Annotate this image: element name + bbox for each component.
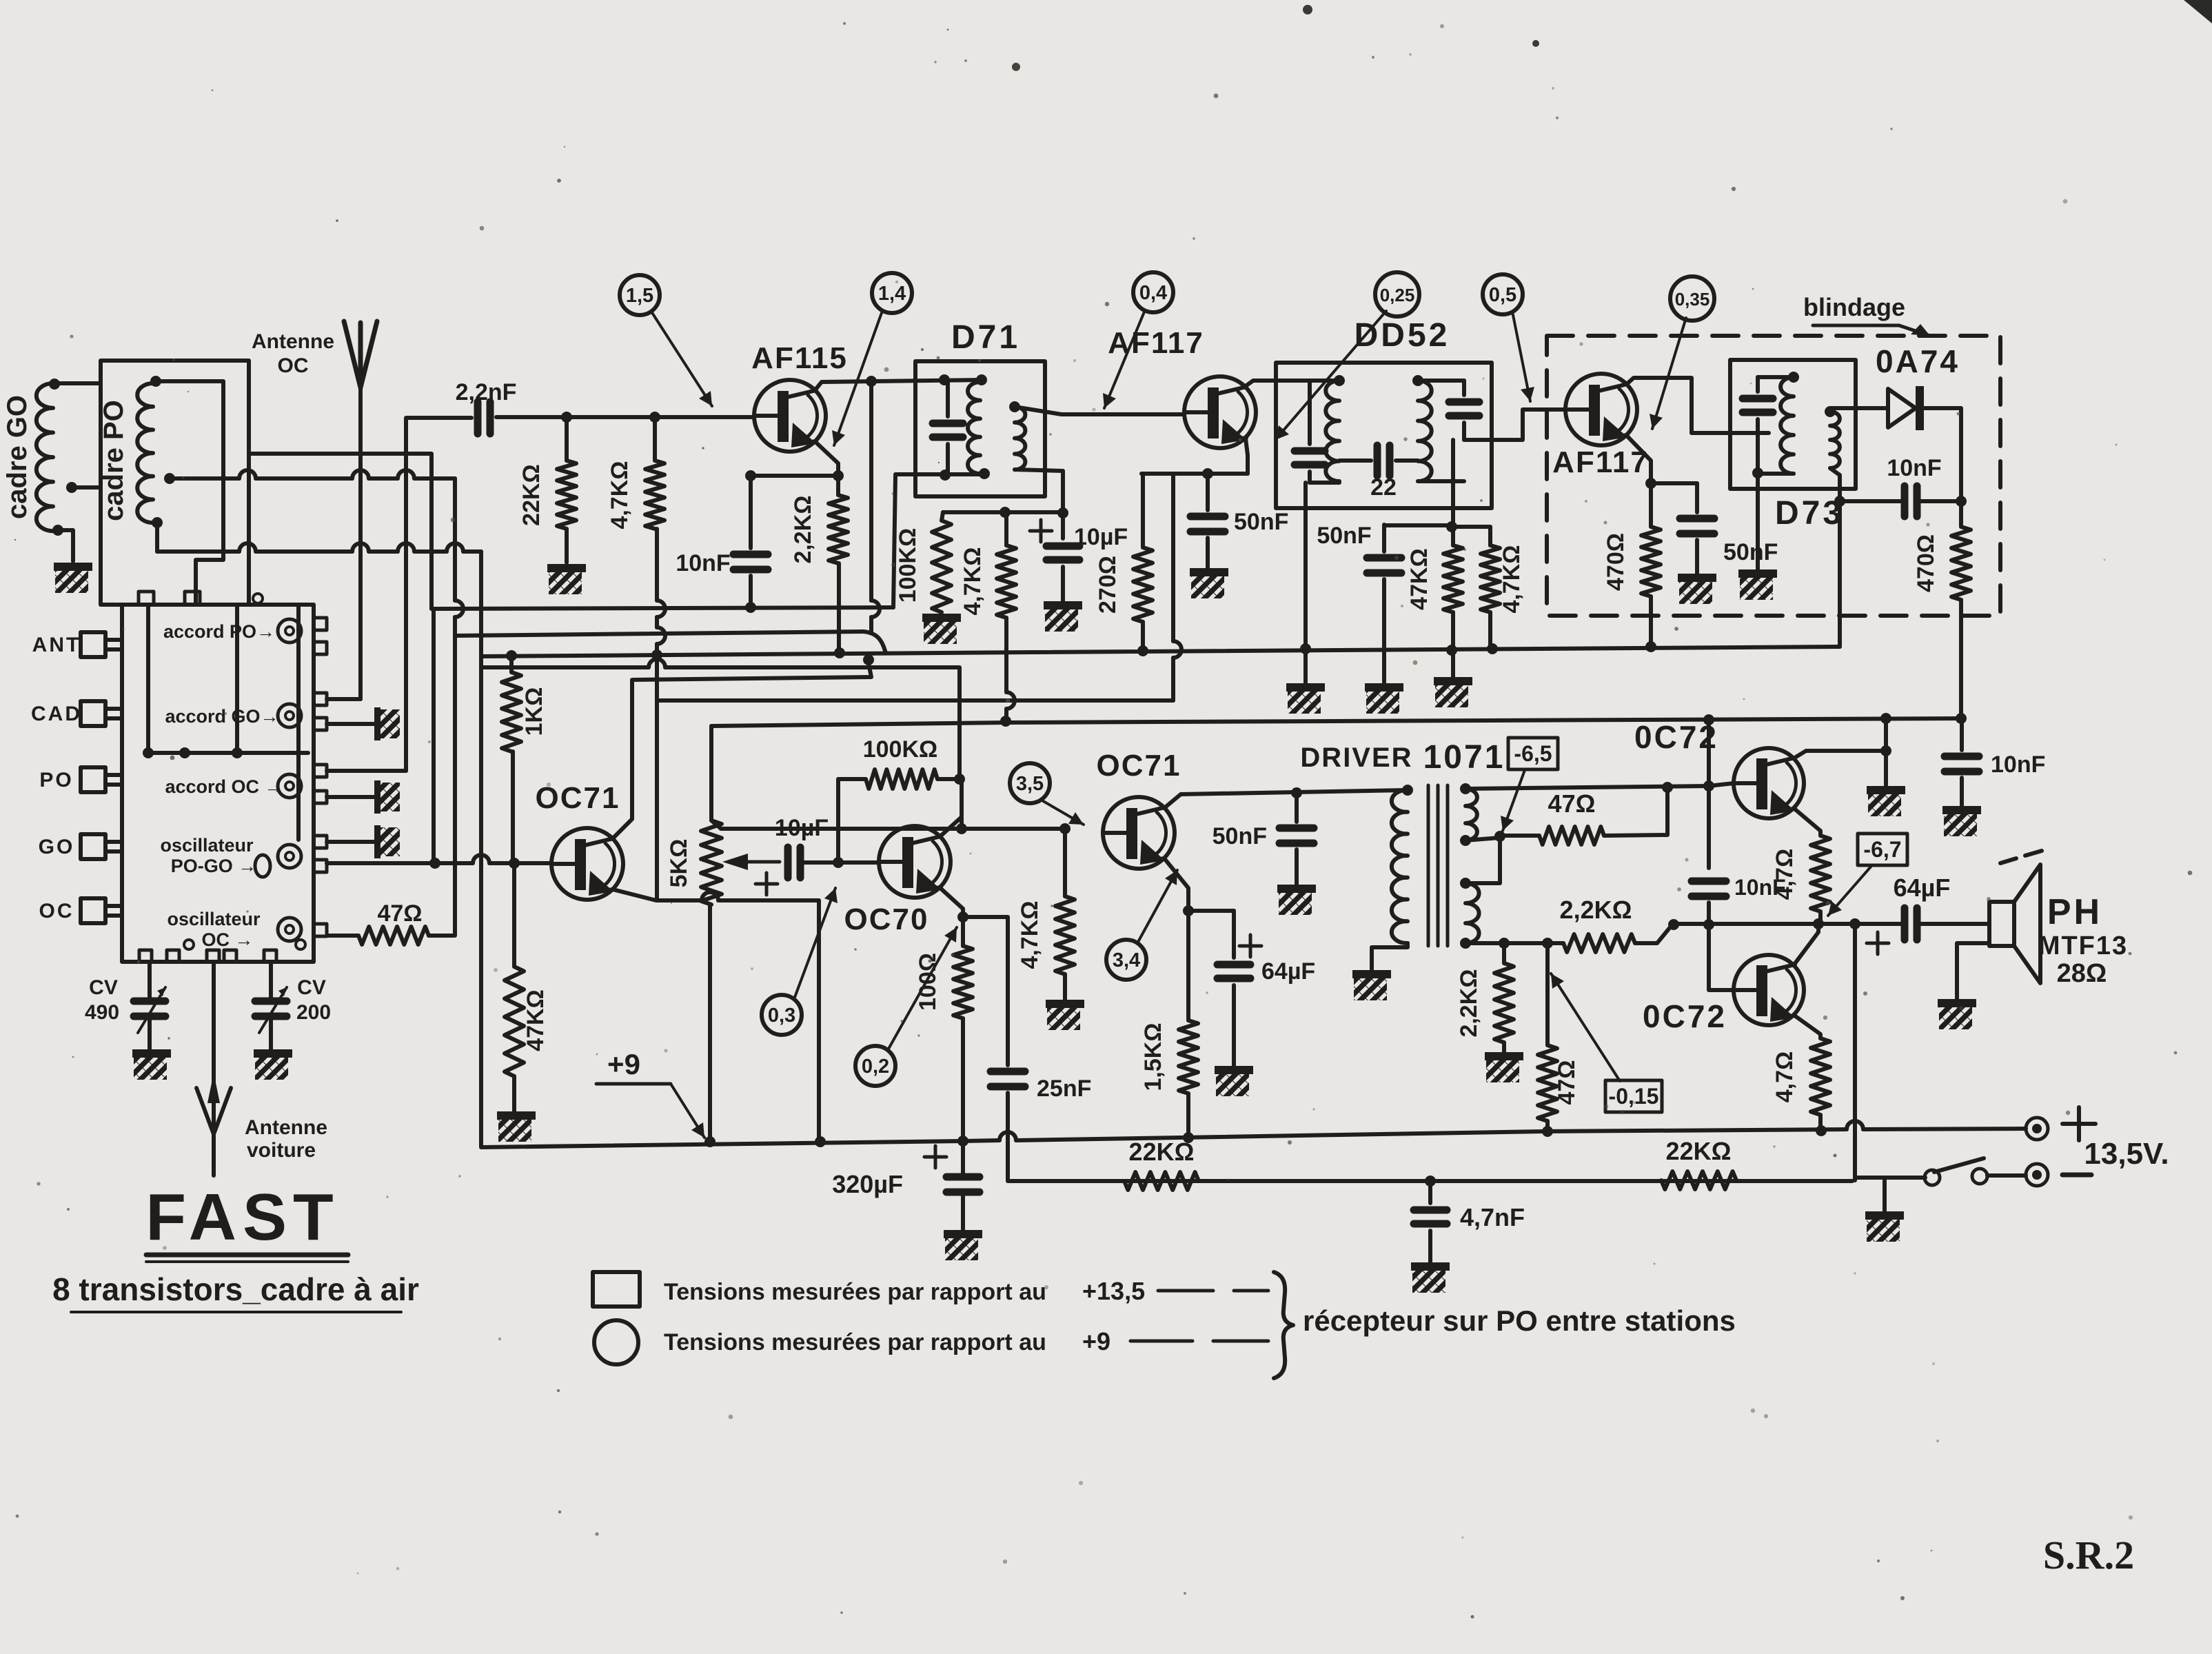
svg-text:0,4: 0,4 xyxy=(1139,282,1167,304)
wire output drop xyxy=(1853,924,1857,1180)
svg-text:D73: D73 xyxy=(1775,495,1844,532)
svg-text:oscillateur: oscillateur xyxy=(160,835,254,856)
wire 22 cap left xyxy=(1339,458,1371,463)
svg-text:22KΩ: 22KΩ xyxy=(1129,1138,1195,1166)
label accord GO xyxy=(165,706,278,727)
svg-text:OC →: OC → xyxy=(201,929,253,950)
svg-text:1071: 1071 xyxy=(1423,739,1505,776)
junction xyxy=(1000,716,1011,727)
svg-text:25nF: 25nF xyxy=(1037,1076,1091,1102)
arrow 0,2 xyxy=(888,927,957,1050)
plus 10µF OC70 xyxy=(755,873,778,895)
plus 320µF xyxy=(924,1146,946,1168)
svg-text:490: 490 xyxy=(85,1001,119,1024)
transformer D73 box xyxy=(1730,360,1856,489)
label ANT xyxy=(32,634,81,656)
svg-text:0,25: 0,25 xyxy=(1380,285,1415,305)
wire D73 top rail xyxy=(1758,375,1794,379)
svg-text:22KΩ: 22KΩ xyxy=(1666,1137,1732,1165)
wire PO bottom drop xyxy=(155,523,159,552)
connector tab CAD xyxy=(81,701,122,726)
potentiometer 5KΩ xyxy=(701,820,722,905)
wire 470-2 top xyxy=(1959,501,1963,527)
wire 320uF bottom xyxy=(961,1192,965,1230)
label 10µF OC70 xyxy=(775,815,829,841)
wire D73 secondary bottom xyxy=(1830,468,1840,501)
svg-text:-6,7: -6,7 xyxy=(1863,837,1901,862)
wire 100ohm top xyxy=(961,917,965,946)
svg-text:4,7Ω: 4,7Ω xyxy=(1772,1051,1798,1103)
speaker PH xyxy=(1989,865,2040,983)
junction xyxy=(1825,406,1836,417)
capacitor 50nF DD52 xyxy=(1367,558,1401,573)
block bottom circle pin 2 xyxy=(296,940,305,949)
terminal oscillateur PO-GO xyxy=(278,845,301,868)
label OC72 bottom xyxy=(1643,998,1727,1034)
legend receiver note xyxy=(1303,1304,1736,1337)
capacitor 4,7nF xyxy=(1414,1210,1447,1224)
label 50nF AF117-2 xyxy=(1723,539,1778,565)
label +9 xyxy=(607,1048,640,1080)
transistor OC72 top xyxy=(1734,748,1804,818)
wire 2,2K bias top xyxy=(1502,943,1506,963)
svg-text:CV: CV xyxy=(89,976,118,999)
wire 4,7nF stem xyxy=(1428,1181,1432,1203)
capacitor CV 490 variable xyxy=(134,1001,165,1016)
svg-text:64µF: 64µF xyxy=(1894,874,1951,902)
label DRIVER xyxy=(1300,743,1412,773)
terminal oscillateur OC xyxy=(278,918,301,941)
switch contact right xyxy=(1972,1169,1987,1184)
label 2,2KΩ xyxy=(790,495,816,563)
svg-text:+9: +9 xyxy=(1082,1327,1110,1355)
wire CV490 stem xyxy=(148,962,152,998)
wire emitter drop x1188 xyxy=(817,900,821,1142)
capacitor 10µF OC70 xyxy=(788,847,800,878)
resistor 47KΩ audio xyxy=(505,967,524,1076)
label 28Ω xyxy=(2057,959,2107,988)
wire DD52 sec out xyxy=(1418,479,1464,483)
terminal accord GO xyxy=(278,704,301,727)
junction xyxy=(506,650,517,661)
wire 47ohm right up xyxy=(1604,787,1667,836)
wire 10uF stem top xyxy=(1061,513,1065,538)
CV490 arrow xyxy=(138,987,165,1033)
wire D71 secondary bottom xyxy=(1015,470,1063,513)
subtitle underline xyxy=(71,1311,401,1313)
wire OC71-1 base line xyxy=(327,855,550,863)
junction xyxy=(66,482,77,493)
connector tab GO xyxy=(81,834,122,859)
ground CV200 xyxy=(254,1049,292,1080)
resistor 100Ω xyxy=(953,946,973,1018)
junction xyxy=(1645,478,1656,489)
svg-text:accord PO→: accord PO→ xyxy=(163,621,275,642)
junction xyxy=(1703,919,1714,930)
label 2,2nF xyxy=(456,379,517,405)
junction xyxy=(1880,713,1891,724)
wire 64uF-1 bottom xyxy=(1232,985,1236,1066)
block top tab 1 xyxy=(139,592,154,605)
label OC xyxy=(278,354,309,377)
resistor 100KΩ D71 xyxy=(932,521,951,612)
label 64µF output xyxy=(1894,874,1951,902)
svg-text:3,4: 3,4 xyxy=(1113,949,1140,971)
svg-text:47Ω: 47Ω xyxy=(1548,789,1596,818)
capacitor 50nF driver xyxy=(1279,828,1314,843)
label AF117 first xyxy=(1108,326,1204,360)
wire AF117-2 emitter xyxy=(1627,436,1651,483)
wire DD52 bottom rail L xyxy=(1310,481,1339,485)
transformer DD52 box xyxy=(1276,363,1492,508)
resistor 1,5KΩ xyxy=(1179,1020,1198,1093)
junction xyxy=(150,376,161,387)
wire AF115 collector xyxy=(815,380,982,390)
arrow 0,5 xyxy=(1512,312,1534,401)
label 470Ω 1 xyxy=(1603,533,1629,591)
wire oscillator column x660 xyxy=(455,478,463,936)
wire 64uF-1 stem xyxy=(1232,911,1236,958)
voltage callout 0,2 xyxy=(855,1046,895,1086)
svg-text:-0,15: -0,15 xyxy=(1609,1084,1659,1109)
wire 2,2K bias bottom xyxy=(1502,1042,1506,1052)
label AF115 xyxy=(751,341,848,375)
CV200 arrow xyxy=(259,987,287,1033)
wire block internal 3 xyxy=(296,605,301,840)
arrow 0,4 xyxy=(1103,310,1145,408)
ground 4,7nF xyxy=(1411,1262,1450,1293)
svg-text:0A74: 0A74 xyxy=(1876,343,1960,379)
wire 470-2 to audio bus xyxy=(1959,600,1963,718)
wire x953 AGC to OC71 emitter xyxy=(655,703,659,900)
label 25nF xyxy=(1037,1076,1091,1102)
label 13,5V xyxy=(2084,1137,2169,1171)
wire 1K bottom xyxy=(511,752,515,862)
wire AGC line y1016 xyxy=(657,698,1173,703)
bus line 1 (AGC bus) xyxy=(432,607,893,609)
resistor 4,7Ω bottom xyxy=(1811,1038,1830,1115)
resistor 4,7KΩ DD52 xyxy=(1481,545,1500,612)
wire base junction up to 100K xyxy=(838,779,866,863)
wire 50nF-2 bottom xyxy=(1295,849,1299,885)
svg-text:4,7KΩ: 4,7KΩ xyxy=(960,547,986,615)
resistor 4,7Ω top xyxy=(1811,836,1830,911)
wire 10nF-2 right xyxy=(1917,499,1961,503)
resistor 22KΩ right xyxy=(1661,1171,1736,1189)
inductor D73 secondary xyxy=(1830,412,1840,468)
wire 10uF bottom xyxy=(1061,567,1065,601)
oscillator coupling oval xyxy=(255,855,270,877)
wire 4,7ohm-1 bottom xyxy=(1818,911,1823,923)
svg-text:blindage: blindage xyxy=(1803,293,1905,321)
svg-text:2,2nF: 2,2nF xyxy=(456,379,517,405)
wire DD52 to AF117-2 base xyxy=(1464,410,1565,440)
block top tab 2 xyxy=(185,592,200,605)
label 100KΩ D71 xyxy=(895,528,921,603)
svg-text:accord OC →: accord OC → xyxy=(165,776,283,797)
wire 4,7K bottom to audio bus xyxy=(1006,618,1015,721)
svg-text:2,2KΩ: 2,2KΩ xyxy=(790,495,816,563)
wire emitter to 10nF column xyxy=(751,474,838,478)
speaker dashes xyxy=(2000,851,2042,863)
label Antenne voiture 2 xyxy=(247,1139,316,1162)
svg-text:64µF: 64µF xyxy=(1261,958,1315,985)
resistor 47Ω coupling xyxy=(1539,827,1604,845)
label 100Ω xyxy=(915,953,941,1011)
inductor DD52 primary xyxy=(1326,381,1339,481)
label Antenne voiture 1 xyxy=(245,1116,327,1139)
ground 320µF xyxy=(944,1230,982,1260)
wire 47ohm-2 top xyxy=(1545,943,1550,1045)
title FAST xyxy=(145,1180,339,1254)
junction xyxy=(1425,1176,1436,1187)
wire DD52 capR bottom xyxy=(1462,423,1466,440)
svg-text:Antenne: Antenne xyxy=(252,330,334,353)
wire collector to bus xyxy=(1884,718,1888,751)
wire DD52 top rail R xyxy=(1418,379,1464,383)
label OA74 xyxy=(1876,343,1960,379)
wire AF117-1 collector xyxy=(1246,381,1339,386)
svg-text:100KΩ: 100KΩ xyxy=(863,736,938,763)
junction xyxy=(1460,783,1471,794)
arrow -0,15 xyxy=(1551,974,1620,1081)
wire pin to 47ohm xyxy=(327,934,358,938)
block right pin 9 xyxy=(314,924,327,936)
junction xyxy=(152,517,163,528)
wire 4,7ohm-2 bottom xyxy=(1818,1115,1823,1131)
wire cap to base junction xyxy=(800,860,878,865)
transistor AF117 second xyxy=(1565,374,1637,445)
wire 47ohm-2 bottom xyxy=(1545,1121,1550,1131)
svg-text:récepteur sur PO entre station: récepteur sur PO entre stations xyxy=(1303,1304,1736,1337)
junction xyxy=(1662,782,1673,793)
arrow 0,25 xyxy=(1275,311,1386,440)
svg-text:470Ω: 470Ω xyxy=(1603,533,1629,591)
label D71 xyxy=(951,319,1020,356)
wire D73 sec to mid bus xyxy=(1838,501,1842,647)
wire 1,5K bottom xyxy=(1186,1093,1190,1138)
label OC xyxy=(39,900,74,922)
blindage underline arrow xyxy=(1813,324,1930,336)
svg-text:10nF: 10nF xyxy=(1991,752,2045,778)
wire 2,2K bottom xyxy=(837,563,841,653)
junction xyxy=(1446,521,1457,532)
resistor 270Ω xyxy=(1133,547,1153,622)
junction xyxy=(52,525,63,536)
svg-text:0C72: 0C72 xyxy=(1634,719,1718,755)
wire 22K line xyxy=(1008,1179,1852,1183)
wire 47ohm to column xyxy=(429,934,454,938)
junction xyxy=(833,470,844,481)
wire D71 cap bottom xyxy=(945,444,948,475)
resistor 100KΩ feedback xyxy=(866,769,937,789)
wire D71 cap top xyxy=(946,380,950,416)
svg-text:47Ω: 47Ω xyxy=(377,900,422,927)
wire base node to audio bus xyxy=(1707,720,1711,786)
junction xyxy=(1542,1126,1553,1137)
label 1KΩ xyxy=(521,687,547,736)
terminal accord OC xyxy=(278,774,301,798)
junction xyxy=(833,857,844,868)
block bottom tab 3 xyxy=(207,950,219,962)
plus sign supply xyxy=(2062,1107,2096,1140)
arrow 3,5 xyxy=(1041,800,1084,825)
label OC71 first xyxy=(536,781,620,815)
wire emitter to 50nF-4 xyxy=(1651,481,1697,485)
arrow 3,4 xyxy=(1137,870,1177,943)
wire cadre PO top xyxy=(156,381,223,605)
junction xyxy=(1813,918,1824,929)
wire DD52 capR top xyxy=(1462,381,1466,395)
svg-text:cadre GO: cadre GO xyxy=(2,395,32,519)
wire pin gnd2 xyxy=(327,795,374,799)
plus 64µF-1 xyxy=(1239,935,1261,957)
inductor DD52 secondary xyxy=(1418,381,1432,481)
connector tab OC xyxy=(81,898,122,923)
resistor 47Ω oscillator xyxy=(358,927,429,945)
junction xyxy=(1880,745,1891,756)
block top circle pin xyxy=(253,594,263,603)
svg-text:-6,5: -6,5 xyxy=(1514,741,1552,766)
voltage callout 0,4 xyxy=(1133,272,1173,312)
wire 50nF-2 stem xyxy=(1295,793,1299,822)
label CV 490a xyxy=(89,976,118,999)
resistor 1KΩ xyxy=(502,672,521,752)
label 470Ω 2 xyxy=(1913,534,1939,592)
resistor 47Ω emitter xyxy=(1538,1045,1557,1121)
svg-text:PO: PO xyxy=(39,769,73,791)
wire pin gnd3 xyxy=(327,840,374,844)
wire secondary top to base xyxy=(1465,786,1709,789)
wire 22 cap right xyxy=(1396,458,1418,463)
svg-text:Tensions mesurées par rapport: Tensions mesurées par rapport au xyxy=(664,1279,1046,1305)
wire bus2 to collector line xyxy=(871,381,880,632)
junction xyxy=(143,747,154,758)
svg-text:22KΩ: 22KΩ xyxy=(518,464,545,526)
wire block internal 1 xyxy=(146,605,150,753)
terminal accord PO xyxy=(278,619,301,643)
resistor 470Ω 2 xyxy=(1951,527,1971,600)
svg-text:CV: CV xyxy=(297,976,326,999)
wire PO tap to x660 xyxy=(170,470,455,478)
wire pin to antenna xyxy=(327,697,361,701)
wire OC72-1 emitter xyxy=(1794,808,1820,836)
wire 50nF-3 bottom xyxy=(1382,579,1386,683)
wire 100ohm bottom xyxy=(961,1018,965,1141)
wire cadre GO bottom to ground xyxy=(58,530,73,561)
label 4,7Ω top xyxy=(1772,849,1798,900)
ground 47K audio xyxy=(497,1111,536,1142)
svg-text:FAST: FAST xyxy=(145,1180,339,1254)
label CV 490b xyxy=(85,1001,119,1024)
wire 22K top xyxy=(565,417,569,461)
junction xyxy=(1542,938,1553,949)
wire OC71-1 emitter xyxy=(613,889,656,900)
ground DD52 primary xyxy=(1286,683,1325,714)
junction xyxy=(1334,375,1345,386)
wire OC72-2 emitter xyxy=(1794,1015,1820,1038)
label 5KΩ xyxy=(666,839,692,888)
svg-text:OC: OC xyxy=(39,900,74,922)
junction xyxy=(954,774,965,785)
ground 64µF emitter xyxy=(1215,1066,1253,1096)
plus 10µF xyxy=(1030,520,1052,542)
legend text 9 xyxy=(664,1329,1046,1355)
ground connector 3 xyxy=(374,825,400,858)
wire AF117-1 emitter xyxy=(1246,438,1248,474)
wire pin to RF column xyxy=(327,769,406,773)
ground OC72 collector xyxy=(1867,786,1905,816)
capacitor DD52 right xyxy=(1449,402,1479,416)
junction xyxy=(1291,787,1302,798)
svg-text:DRIVER: DRIVER xyxy=(1300,743,1412,773)
svg-text:voiture: voiture xyxy=(247,1139,316,1162)
ground 47K DD52 xyxy=(1434,677,1472,707)
junction xyxy=(815,1136,826,1147)
wire 10nF-2 left xyxy=(1840,499,1905,503)
connector tab PO xyxy=(81,767,122,792)
ground 50nF DD52 xyxy=(1365,683,1403,714)
junction xyxy=(834,647,845,658)
svg-text:OC71: OC71 xyxy=(1097,749,1181,783)
label 4,7Ω bottom xyxy=(1772,1051,1798,1103)
transformer D71 box xyxy=(915,361,1045,496)
wire emitter rail AF117-1 xyxy=(1141,472,1248,476)
legend brace xyxy=(1274,1272,1293,1378)
wire 470-1 bottom xyxy=(1649,596,1653,647)
capacitor CV 200 variable xyxy=(255,1001,287,1016)
label PO xyxy=(39,769,73,791)
label 47KΩ audio xyxy=(522,989,549,1051)
wire output line left xyxy=(1674,922,1904,926)
wire secondary tap xyxy=(1465,838,1500,840)
block right pin 7 xyxy=(314,836,327,848)
svg-text:0,5: 0,5 xyxy=(1489,284,1516,306)
label DD52 xyxy=(1354,317,1450,354)
legend circle symbol xyxy=(594,1320,638,1364)
junction xyxy=(940,470,951,481)
cadre antenna frame box xyxy=(101,361,249,605)
transistor OC71 first xyxy=(551,828,623,900)
svg-text:22: 22 xyxy=(1370,474,1397,501)
label CV 200b xyxy=(296,1001,331,1024)
resistor 2,2KΩ coupling xyxy=(1563,934,1635,952)
bus line 4 xyxy=(481,659,958,667)
resistor 2,2KΩ bias xyxy=(1494,963,1514,1042)
svg-text:28Ω: 28Ω xyxy=(2057,959,2107,988)
label Antenne (OC) xyxy=(252,330,334,353)
svg-text:4,7KΩ: 4,7KΩ xyxy=(1499,545,1525,613)
svg-text:10µF: 10µF xyxy=(1074,524,1128,550)
antenne voiture symbol xyxy=(196,1073,231,1134)
voltage callout 0,35 xyxy=(1670,276,1714,321)
capacitor 10nF blindage xyxy=(1905,486,1917,516)
wire secondary bottom to 2,2K xyxy=(1465,941,1563,945)
label 4,7KΩ AF115 xyxy=(607,461,633,529)
svg-text:320µF: 320µF xyxy=(832,1170,903,1198)
resistor 22KΩ xyxy=(557,461,576,529)
wire 100K right xyxy=(937,777,960,781)
wire 10nF-5 stem xyxy=(1960,718,1964,750)
wire 2,2K top xyxy=(836,476,840,495)
junction xyxy=(957,911,968,922)
junction xyxy=(1183,1132,1194,1143)
junction xyxy=(1137,645,1148,656)
label 2,2KΩ bias xyxy=(1456,969,1482,1037)
wire cadre GO top to frame xyxy=(53,381,101,385)
wire 50nF-1 bottom xyxy=(1206,538,1210,568)
svg-text:470Ω: 470Ω xyxy=(1913,534,1939,592)
